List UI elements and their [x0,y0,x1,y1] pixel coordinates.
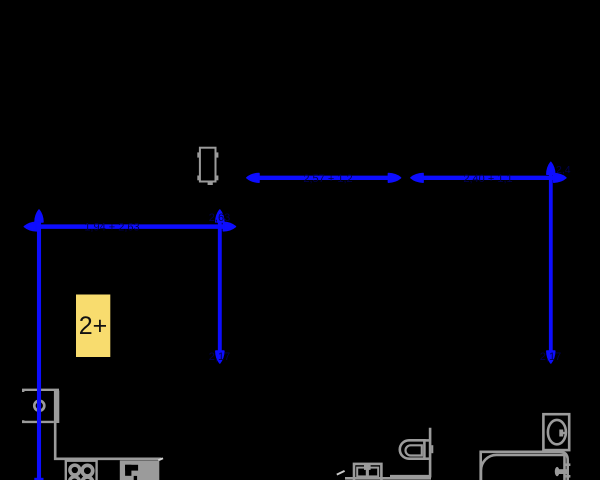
svg-text:2,17: 2,17 [209,351,230,363]
svg-text:2,63: 2,63 [209,212,230,224]
dimension line C (horizontal, top right) [411,174,566,183]
dimension line B (horizontal, top middle) [247,174,401,183]
svg-text:2+: 2+ [79,312,108,340]
kitchen counter wall line [55,423,161,459]
toilet tank lines [424,439,430,442]
svg-text:2,40 + 1,1: 2,40 + 1,1 [463,173,512,185]
svg-text:1,94 + 2,63: 1,94 + 2,63 [84,222,139,234]
floor line break tick [337,471,345,475]
dimension line V3 (vertical right) [547,162,555,363]
svg-text:2,57 + 1,2: 2,57 + 1,2 [303,173,352,185]
toilet wall nub [431,445,433,453]
door/column rectangle top [197,148,218,185]
boiler unit with fan circle (kitchen left) [23,390,59,423]
yellow room label 2+ [76,295,110,358]
toilet [390,428,433,477]
svg-text:2,17: 2,17 [540,351,561,363]
dimension line A (horizontal, lower left) [24,222,235,231]
svg-text:2,4: 2,4 [556,164,571,176]
fridge / sink cabinet [120,460,160,480]
bathroom floor line [345,477,431,480]
washbasin [354,464,381,480]
dimension line V2 (vertical, room height) [216,210,224,363]
bathtub [481,452,571,480]
bathtub faucet [559,469,568,474]
counter end tick (white) [158,458,163,460]
toilet wall line [390,428,430,477]
stove with 4 burners [66,461,97,480]
toilet bowl outer [400,440,425,458]
toilet bowl inner [406,445,422,455]
washing machine [543,414,569,450]
extension line V1 (left, down to kitchen) [34,210,43,480]
